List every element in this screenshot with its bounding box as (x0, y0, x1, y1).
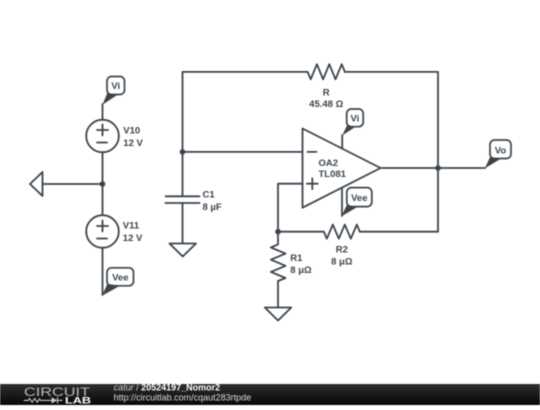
svg-text:45.48 Ω: 45.48 Ω (309, 99, 343, 110)
svg-text:catur / 20524197_Nomor2: catur / 20524197_Nomor2 (114, 383, 221, 393)
svg-text:R2: R2 (336, 245, 348, 256)
svg-text:12 V: 12 V (123, 233, 143, 244)
svg-text:OA2: OA2 (319, 158, 339, 169)
svg-text:Vi: Vi (350, 114, 359, 125)
svg-text:8 μΩ: 8 μΩ (290, 265, 312, 276)
svg-text:C1: C1 (203, 190, 216, 201)
svg-text:V10: V10 (123, 126, 140, 137)
svg-text:Vo: Vo (495, 146, 507, 157)
svg-text:8 µF: 8 µF (203, 202, 222, 213)
svg-text:Vee: Vee (351, 193, 367, 204)
svg-text:R: R (323, 88, 330, 99)
svg-text:12 V: 12 V (123, 138, 143, 149)
svg-text:8 μΩ: 8 μΩ (331, 257, 353, 268)
svg-text:LAB: LAB (65, 396, 91, 406)
svg-text:V11: V11 (123, 221, 140, 232)
svg-text:http://circuitlab.com/cqaut283: http://circuitlab.com/cqaut283rtpde (114, 393, 252, 403)
svg-text:R1: R1 (290, 253, 303, 264)
svg-text:Vi: Vi (111, 81, 120, 92)
svg-text:Vee: Vee (112, 272, 128, 283)
svg-text:TL081: TL081 (319, 169, 347, 180)
